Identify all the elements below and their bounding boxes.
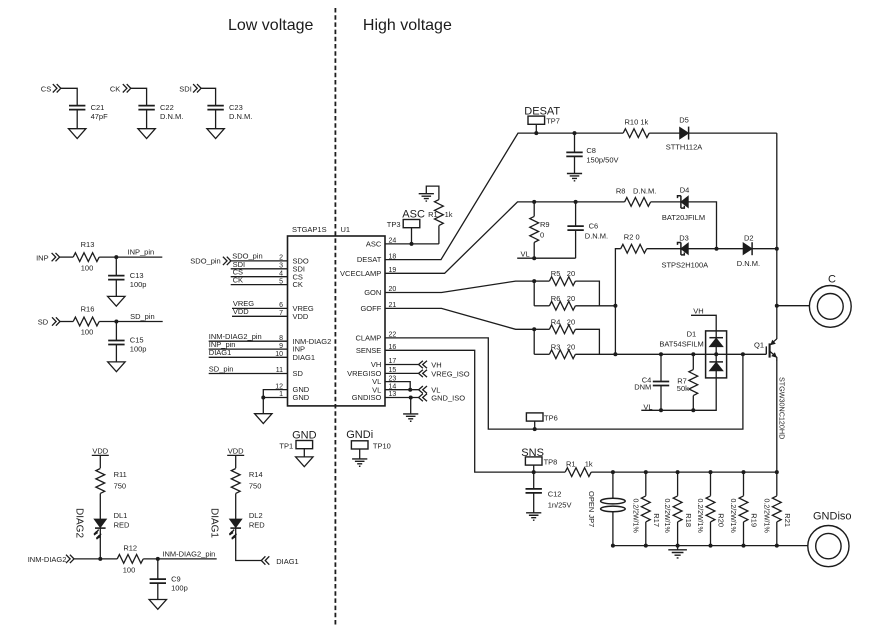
svg-text:INM-DIAG2: INM-DIAG2 [28, 555, 67, 564]
LED DL1 RED [94, 511, 130, 539]
svg-text:VCECLAMP: VCECLAMP [340, 269, 381, 278]
svg-text:VDD: VDD [228, 446, 244, 455]
svg-text:STGW30NC120HD: STGW30NC120HD [777, 377, 786, 439]
resistor R6 20 [534, 294, 615, 310]
U1 left pin 11 SD [276, 367, 304, 378]
wire U1 pin16 SENSE to SNS row [385, 350, 534, 472]
junction R19 top [742, 470, 746, 474]
svg-text:DNM: DNM [634, 383, 651, 392]
svg-text:D3: D3 [679, 233, 689, 242]
svg-text:R3: R3 [551, 342, 561, 351]
capacitor C13 [108, 271, 146, 289]
wire R14 to DL2 [235, 494, 237, 520]
svg-text:DESAT: DESAT [357, 255, 382, 264]
svg-text:R19: R19 [750, 513, 759, 527]
svg-text:SD: SD [38, 318, 49, 327]
U1 left pin 6 VREG [279, 302, 314, 313]
wire shunt bottom row to GNDiso [613, 545, 808, 547]
junction TP6 on clamp wire [533, 427, 537, 431]
U1 right pin 17 VH [371, 358, 397, 369]
wire R1 to shunt bank [591, 471, 777, 473]
resistor R18 0.2/2W/1% [663, 472, 693, 545]
svg-text:INP_pin: INP_pin [128, 247, 155, 256]
junction C4 bottom [659, 408, 663, 412]
junction JP7 top [611, 470, 615, 474]
wire emitter bus to shunt row [776, 361, 778, 473]
U1 left pin 9 INP [279, 343, 305, 354]
junction D1 midpoint on gate row [714, 352, 718, 356]
svg-text:R9: R9 [540, 220, 550, 229]
junction C9 node [156, 557, 160, 561]
wire CS to C21 [61, 88, 77, 105]
wire node INM-DIAG2_pin [143, 550, 217, 559]
input connector chevron CS [53, 84, 61, 92]
svg-text:R2 0: R2 0 [624, 233, 640, 242]
svg-text:100: 100 [81, 328, 94, 337]
svg-text:C9: C9 [171, 574, 181, 583]
wire VCECLAMP row to R8 [534, 201, 624, 203]
U1 right pin 16 SENSE [356, 344, 397, 355]
svg-text:TP10: TP10 [373, 441, 391, 450]
wire VL row C4 R7 D1 [661, 378, 716, 410]
svg-text:TP1: TP1 [279, 441, 293, 450]
net label SDI [179, 84, 192, 93]
svg-text:R10 1k: R10 1k [625, 118, 649, 127]
junction R9 top [532, 200, 536, 204]
wire bus to C terminal [777, 305, 809, 307]
connector chevron VL [419, 386, 441, 395]
wire U1 pin18 DESAT diagonal to TP7 [385, 133, 536, 260]
svg-text:CS: CS [41, 84, 51, 93]
svg-text:SDI: SDI [179, 84, 192, 93]
wire GNDISO to isolated ground [410, 398, 412, 414]
svg-text:DL1: DL1 [114, 511, 128, 520]
svg-text:Low voltage: Low voltage [228, 17, 313, 34]
svg-text:R13: R13 [81, 240, 95, 249]
wire SDI to C23 [201, 88, 216, 105]
svg-text:DL2: DL2 [249, 511, 263, 520]
U1 left pin 4 CS [279, 270, 303, 281]
wire node INP_pin [99, 247, 162, 257]
svg-text:CK: CK [293, 280, 303, 289]
junction R17 top [644, 470, 648, 474]
capacitor C8 [566, 146, 618, 165]
svg-text:R8: R8 [616, 187, 626, 196]
resistor R7 50k [677, 354, 698, 410]
junction GND pins [261, 396, 265, 400]
wire pin2 SDO stub [231, 252, 288, 261]
svg-text:VDD: VDD [92, 446, 108, 455]
svg-text:20: 20 [567, 269, 575, 278]
svg-text:0.2/2W/1%: 0.2/2W/1% [631, 499, 638, 533]
junction R20 top [709, 470, 713, 474]
junction TP3 on ASC [410, 242, 414, 246]
wire pin11 SD_pin stub [209, 364, 288, 373]
wire CK to C22 [131, 88, 147, 105]
svg-text:C23: C23 [229, 103, 243, 112]
svg-text:1k: 1k [445, 210, 453, 219]
wire pin14 VL stub [385, 389, 419, 391]
svg-text:R14: R14 [249, 470, 263, 479]
diode D3 STPS2H100A [661, 233, 708, 269]
svg-text:R17: R17 [652, 513, 661, 527]
svg-text:INP: INP [36, 253, 49, 262]
connector chevron GND_ISO [419, 394, 466, 403]
U1 left pin 3 SDI [279, 263, 305, 274]
svg-text:0.2/2W/1%: 0.2/2W/1% [663, 499, 670, 533]
svg-text:D.N.M.: D.N.M. [229, 112, 252, 121]
capacitor C23 [207, 103, 252, 121]
net label VL at C4 row [641, 403, 661, 412]
power label VDD at R11 [92, 446, 109, 455]
svg-text:750: 750 [114, 482, 127, 491]
net label VL at R9 [517, 249, 534, 258]
junction R9 bottom VL [532, 256, 536, 260]
svg-text:TP3: TP3 [387, 220, 401, 229]
wire D3 to D2 [688, 248, 743, 250]
svg-text:100p: 100p [130, 280, 147, 289]
svg-text:100: 100 [123, 566, 136, 575]
svg-text:SD_pin: SD_pin [130, 312, 155, 321]
svg-text:GON: GON [364, 288, 381, 297]
connector chevron VH [419, 361, 442, 370]
wire D5 to collector bus [689, 132, 777, 134]
svg-text:D.N.M.: D.N.M. [585, 231, 608, 240]
wire pin15 VREGISO stub [385, 372, 419, 374]
net label CK [110, 84, 120, 93]
svg-text:R20: R20 [717, 513, 726, 527]
svg-text:20: 20 [567, 294, 575, 303]
ground below C22 [138, 129, 155, 139]
svg-text:R12: R12 [123, 544, 137, 553]
wire R10 to D5 [649, 132, 679, 134]
jumper JP7 OPEN [587, 472, 625, 545]
wire gate row to Q1 gate [615, 353, 766, 355]
svg-text:C: C [828, 273, 836, 285]
wire VDD to R14 [235, 455, 237, 468]
isolated ground below C12 [526, 513, 541, 520]
wire DL1 to INM-DIAG2 node [99, 528, 101, 559]
wire GND pins 12 and 1 [263, 390, 287, 414]
resistor R5 20 [534, 269, 599, 306]
diode D5 STTH112A [666, 115, 703, 151]
wire C9 to ground [157, 583, 159, 600]
svg-text:CLAMP: CLAMP [355, 334, 381, 343]
svg-text:SD_pin: SD_pin [209, 364, 234, 373]
svg-text:CK: CK [233, 276, 243, 285]
wire C23 to ground [215, 109, 217, 129]
svg-text:SD: SD [293, 369, 304, 378]
wire C12 to isolated ground [533, 493, 535, 513]
svg-text:R18: R18 [684, 513, 693, 527]
junction R18 top [676, 470, 680, 474]
resistor R14 [231, 469, 262, 494]
U1 left pin 10 DIAG1 [275, 351, 315, 362]
svg-text:GNDISO: GNDISO [352, 393, 382, 402]
wire DL2 to DIAG1 connector [236, 528, 262, 561]
junction CLAMP riser on gate row [741, 352, 745, 356]
svg-text:TP7: TP7 [546, 117, 560, 126]
svg-text:D.N.M.: D.N.M. [160, 112, 183, 121]
junction INP node [114, 255, 118, 259]
resistor R19 0.2/2W/1% [729, 472, 759, 545]
wire node SD_pin [99, 312, 163, 322]
isolated ground above R1 [419, 194, 434, 201]
junction C8 on DESAT wire [573, 131, 577, 135]
svg-text:C15: C15 [130, 336, 144, 345]
U1 left pin 2 SDO [279, 255, 309, 266]
junction R18 bottom [676, 544, 680, 548]
svg-text:VH: VH [693, 307, 703, 316]
svg-text:VH: VH [431, 361, 441, 370]
svg-text:DIAG1: DIAG1 [293, 353, 316, 362]
svg-text:BAT20JFILM: BAT20JFILM [662, 213, 705, 222]
svg-text:DIAG1: DIAG1 [209, 348, 232, 357]
svg-text:TP8: TP8 [544, 458, 558, 467]
test point TP3 ASC [387, 208, 425, 244]
LED DL2 RED [229, 511, 265, 539]
svg-text:VL: VL [521, 249, 530, 258]
svg-text:150p/50V: 150p/50V [586, 156, 618, 165]
svg-text:C6: C6 [589, 222, 599, 231]
resistor R10 1k [623, 118, 649, 138]
svg-text:GND_ISO: GND_ISO [431, 394, 465, 403]
junction R6 on gate bus [613, 304, 617, 308]
wire C22 to ground [146, 109, 148, 129]
svg-text:C21: C21 [91, 103, 105, 112]
resistor R17 0.2/2W/1% [631, 472, 661, 545]
net label VH above D1 [691, 307, 716, 331]
U1 right pin 14 VL [372, 383, 396, 394]
junction C6 top [574, 200, 578, 204]
input connector chevron SDI [193, 84, 201, 92]
resistor R20 0.2/2W/1% [696, 472, 726, 545]
junction D2 on collector bus [775, 247, 779, 251]
svg-text:DIAG1: DIAG1 [209, 508, 220, 538]
junction DIAG2 node [98, 557, 102, 561]
svg-text:OPEN JP7: OPEN JP7 [587, 491, 596, 527]
junction R20 bottom [709, 544, 713, 548]
svg-text:C8: C8 [586, 146, 596, 155]
net label DIAG2 rotated [73, 508, 84, 538]
wire pin6 VREG stub [232, 299, 288, 308]
resistor R13 [73, 240, 99, 272]
wire pin3 SDI stub [231, 260, 288, 269]
wire VDD to R11 [99, 455, 101, 468]
isolated ground below R18 [668, 546, 687, 558]
resistor R1 1k pull-up [428, 200, 453, 226]
junction TP8 C12 node [532, 470, 536, 474]
wire INM-DIAG2 to R12 [74, 558, 117, 560]
svg-text:750: 750 [249, 482, 262, 491]
junction GNDISO [409, 396, 413, 400]
power label VDD at R14 [227, 446, 244, 455]
wire DESAT to C8 [574, 133, 576, 152]
svg-text:100p: 100p [130, 345, 147, 354]
resistor R4 20 [534, 317, 599, 354]
svg-text:R21: R21 [783, 513, 792, 527]
U1 right pin 13 GNDISO [352, 391, 397, 402]
svg-text:D2: D2 [744, 233, 754, 242]
capacitor C4 DNM [634, 354, 669, 410]
junction R17 bottom [644, 544, 648, 548]
junction R21 bottom [775, 544, 779, 548]
connector chevron VREG_ISO [419, 370, 470, 379]
junction SD node [114, 320, 118, 324]
capacitor C21 [69, 103, 108, 121]
resistor R3 20 [534, 342, 615, 358]
svg-text:High voltage: High voltage [363, 17, 452, 34]
resistor R21 0.2/2W/1% [762, 472, 792, 545]
wire R2 to D3 [647, 248, 681, 250]
svg-text:R11: R11 [114, 470, 127, 479]
svg-text:GNDiso: GNDiso [813, 510, 852, 522]
svg-text:INM-DIAG2_pin: INM-DIAG2_pin [162, 550, 215, 559]
svg-text:R16: R16 [81, 304, 95, 313]
svg-text:R5: R5 [551, 269, 561, 278]
ground below C21 [69, 129, 86, 139]
wire pin8 INM-DIAG2_pin stub [209, 332, 288, 341]
svg-text:100p: 100p [171, 583, 188, 592]
input connector chevron INP [52, 253, 60, 261]
svg-text:VREG_ISO: VREG_ISO [431, 370, 470, 379]
svg-text:D1: D1 [687, 329, 697, 338]
wire SD node to C15 [115, 322, 117, 341]
svg-text:47pF: 47pF [91, 112, 109, 121]
svg-text:GOFF: GOFF [360, 304, 381, 313]
svg-text:C22: C22 [160, 103, 174, 112]
svg-text:0: 0 [540, 230, 544, 239]
junction GON at R5 [532, 279, 536, 283]
junction JP7 bottom [611, 544, 615, 548]
wire pin13 GNDISO stub [385, 397, 419, 399]
svg-text:CK: CK [110, 84, 120, 93]
wire R8 to D4 [651, 201, 681, 203]
wire C13 to ground [115, 279, 117, 296]
junction C4 top [659, 352, 663, 356]
U1 right pin 24 ASC [366, 238, 397, 249]
test point TP7 DESAT [524, 106, 560, 133]
wire U1 pin22 CLAMP to gate node [385, 338, 743, 429]
wire U1 pin24 ASC to R1 [385, 243, 439, 245]
wire C21 to ground [76, 109, 78, 129]
wire collector bus [776, 133, 778, 339]
svg-text:C12: C12 [548, 489, 562, 498]
ground below C13 [108, 296, 125, 306]
U1 right pin 18 DESAT [357, 253, 397, 264]
test point TP6 [526, 413, 557, 429]
junction C terminal on bus [775, 304, 779, 308]
junction D4 branch on D3 row [715, 247, 719, 251]
svg-text:R1: R1 [566, 460, 576, 469]
svg-text:100: 100 [81, 263, 94, 272]
U1 right pin 15 VREGISO [347, 367, 396, 378]
svg-text:D4: D4 [680, 185, 690, 194]
svg-text:50k: 50k [677, 384, 689, 393]
svg-text:GNDi: GNDi [346, 429, 373, 441]
output connector chevron DIAG1 [261, 556, 298, 566]
test point TP8 SNS [521, 447, 557, 472]
resistor R11 [96, 469, 127, 494]
wire D2 to collector bus [752, 248, 777, 250]
resistor R16 [73, 304, 99, 336]
isolated ground below GNDISO [403, 414, 418, 421]
svg-text:VH: VH [371, 360, 381, 369]
net label CS [41, 84, 51, 93]
svg-text:C13: C13 [130, 271, 144, 280]
wire INP node to C13 [115, 257, 117, 276]
svg-text:R1: R1 [428, 210, 438, 219]
wire pin4 CS stub [231, 268, 288, 277]
terminal C collector [809, 273, 851, 327]
wire pin23 VL to pin14 [385, 382, 410, 390]
ground below C9 [149, 600, 166, 610]
diode pair D1 BAT54SFILM [659, 329, 726, 378]
svg-text:ASC: ASC [366, 240, 382, 249]
svg-text:SENSE: SENSE [356, 346, 381, 355]
svg-text:0.2/2W/1%: 0.2/2W/1% [729, 499, 736, 533]
transistor Q1 IGBT STGW30NC120HD [754, 339, 786, 440]
wire pin10 DIAG1 stub [209, 348, 288, 357]
junction VL pins [408, 388, 412, 392]
wire R2 left to gate resistor bus [615, 249, 620, 355]
input connector chevron SD [52, 317, 60, 325]
svg-text:VDD: VDD [293, 312, 309, 321]
U1 right pin 19 VCECLAMP [340, 267, 396, 278]
svg-text:0.2/2W/1%: 0.2/2W/1% [762, 499, 769, 533]
resistor R8 D.N.M. [616, 187, 656, 207]
svg-text:STGAP1S: STGAP1S [292, 225, 327, 234]
net label SDO_pin at connector [190, 257, 220, 266]
wire U1 pin19 VCECLAMP diagonal to R9 row [385, 202, 534, 273]
wire INP to R13 [60, 256, 74, 258]
net label INP [36, 253, 49, 262]
wire pin5 CK stub [231, 276, 288, 285]
wire U1 pin21 GOFF to R4 R3 pair [385, 308, 534, 329]
svg-text:Q1: Q1 [754, 340, 764, 349]
svg-text:RED: RED [249, 520, 265, 529]
svg-text:1k: 1k [585, 460, 593, 469]
isolated ground below C8 [567, 174, 582, 181]
U1 right pin 20 GON [364, 286, 396, 297]
resistor R2 0 [621, 233, 647, 253]
wire R1 to isolated ground [426, 186, 439, 244]
svg-text:SDO_pin: SDO_pin [190, 257, 220, 266]
wire R11 to DL1 [99, 494, 101, 520]
capacitor C15 [108, 336, 146, 354]
terminal GNDiso [808, 510, 852, 566]
junction R3 on gate row [613, 352, 617, 356]
net label INM-DIAG2 [28, 555, 67, 564]
capacitor C12 [526, 489, 572, 510]
junction GOFF at R4 [532, 327, 536, 331]
resistor R9 0 [530, 202, 550, 258]
svg-text:U1: U1 [341, 225, 351, 234]
wire DESAT row to R10 [536, 132, 624, 134]
svg-text:DIAG2: DIAG2 [73, 508, 84, 538]
wire pin9 INP_pin stub [209, 340, 288, 349]
svg-text:ASC: ASC [402, 208, 425, 220]
capacitor C22 [138, 103, 183, 121]
net label SD [38, 318, 49, 327]
isolation barrier dashed line [334, 8, 336, 627]
resistor R1 1k sense [565, 460, 593, 477]
wire R5 R6 left vertical [533, 281, 535, 306]
connector chevron SDO_pin [223, 257, 231, 265]
U1 left pin 8 INM-DIAG2 [279, 335, 331, 346]
junction R7 top [691, 352, 695, 356]
svg-text:20: 20 [567, 317, 575, 326]
